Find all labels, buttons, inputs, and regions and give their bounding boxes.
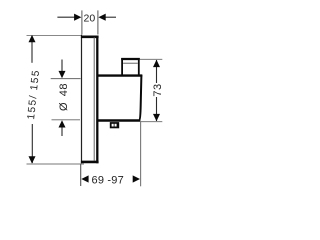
- handle body: [98, 75, 142, 121]
- plate top edge: [81, 35, 99, 38]
- left arrowhead of 20: [74, 14, 81, 21]
- right ext line of 69-97: [140, 121, 142, 186]
- upper shaft of 48: [61, 60, 63, 72]
- white gap for 73 text: [152, 83, 163, 97]
- dimension 69-97 (bottom): [81, 121, 141, 186]
- bottom ext line of 155: [27, 163, 85, 165]
- left arrow shaft of 20: [57, 16, 74, 18]
- button on top of body: [121, 58, 140, 75]
- top ext line of 73: [140, 58, 163, 60]
- dimension 20 (top): [57, 10, 116, 34]
- dimension Ø48: [51, 60, 81, 137]
- left arrowhead of 69-97: [81, 175, 88, 182]
- top ext line of 155: [27, 34, 82, 36]
- svg-text:Ø 48: Ø 48: [58, 83, 70, 111]
- ext line left of 20: [81, 10, 83, 34]
- dimension 73 (right): [140, 59, 164, 121]
- body top edge: [98, 74, 142, 76]
- upper arrowhead of 48 (points down): [59, 71, 66, 78]
- right arrowhead of 20: [98, 14, 105, 21]
- button left edge: [121, 58, 123, 75]
- bottom ext line of 48: [52, 119, 81, 121]
- plate bottom edge: [81, 161, 99, 164]
- right arrowhead of 69-97: [133, 175, 140, 182]
- plate (escutcheon side view): [81, 35, 99, 163]
- ext line right of 20: [97, 10, 99, 34]
- lower shaft of 48: [61, 127, 63, 136]
- button inner line: [123, 62, 138, 64]
- svg-text:20: 20: [84, 12, 96, 24]
- svg-text:73: 73: [152, 83, 164, 96]
- top ext line of 48: [51, 78, 81, 80]
- dimension 155/155 (left): [26, 35, 84, 164]
- lower arrowhead of 48 (points up): [59, 120, 66, 127]
- plate left edge: [81, 35, 83, 163]
- plate right edge: [96, 36, 98, 164]
- body right edge: [139, 75, 141, 120]
- dim line of 73: [156, 60, 158, 121]
- button right edge: [138, 58, 140, 75]
- dim line of 155: [31, 36, 33, 63]
- plate inner face line: [93, 37, 95, 160]
- svg-text:69 -97: 69 -97: [92, 174, 124, 186]
- body bottom edge: [98, 119, 140, 121]
- button top edge: [121, 58, 140, 60]
- bottom arrowhead of 73: [153, 114, 160, 121]
- top arrowhead of 155: [29, 35, 36, 42]
- bottom ext line of 73: [141, 121, 163, 123]
- top arrowhead of 73: [153, 60, 160, 67]
- safety-stop tab under body: [110, 122, 119, 128]
- left ext line of 69-97: [80, 164, 82, 186]
- bottom arrowhead of 155: [29, 156, 36, 163]
- right arrow shaft of 20: [105, 16, 116, 18]
